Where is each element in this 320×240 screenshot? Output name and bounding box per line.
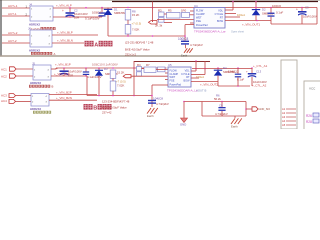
svg-text:R7: R7 (146, 63, 150, 67)
svg-text:AC4: AC4 (1, 99, 7, 103)
earth ground B2 (234, 116, 236, 118)
svg-text:TPS54360DDAR-A_La: TPS54360DDAR-A_La (167, 89, 198, 93)
svg-text:+_VIN_B1N: +_VIN_B1N (54, 72, 70, 76)
svg-text:ACT+2: ACT+2 (8, 31, 18, 35)
node VFB (127, 20, 129, 25)
svg-text:A5: A5 (282, 123, 286, 127)
capacitor C2B electrolytic (63, 68, 65, 70)
riser from dark rail x152 (152, 2, 154, 23)
PowerPad wire to earth (185, 24, 194, 26)
earth ground B (147, 108, 158, 114)
svg-text:100|C8: 100|C8 (178, 37, 188, 41)
port arrow left B (123, 75, 131, 78)
svg-text:PowerPad: PowerPad (196, 24, 208, 27)
bottom rail B (87, 95, 152, 97)
svg-text:ACT-2: ACT-2 (8, 39, 17, 43)
svg-text:BOW: BOW (217, 20, 224, 23)
svg-text:+: + (62, 9, 64, 13)
IC right pin wires (225, 9, 233, 11)
svg-text:ACT+1: ACT+1 (8, 4, 18, 8)
wire AC3 to J7 (16, 95, 32, 97)
svg-text:BOW: BOW (184, 80, 191, 83)
rail B (51, 68, 56, 70)
bottom loop wire (271, 23, 317, 25)
svg-text:A1: A1 (282, 107, 286, 111)
wire AC4 to J7 (16, 100, 32, 102)
svg-text:R5: R5 (168, 8, 172, 12)
svg-text:+_VIN_B2N: +_VIN_B2N (56, 96, 72, 100)
svg-text:0.1uF/100V: 0.1uF/100V (87, 75, 102, 79)
wire J6 out pin1 (52, 34, 98, 36)
capacitor C12 (237, 68, 239, 74)
svg-text:0.1uF/100V: 0.1uF/100V (85, 16, 100, 20)
svg-text:A4: A4 (282, 119, 286, 123)
svg-text:R4: R4 (137, 63, 141, 67)
svg-text:U4: U4 (194, 4, 198, 8)
PowerPad wire to earth B (152, 84, 168, 86)
svg-text:7.02K: 7.02K (117, 83, 124, 87)
svg-text:100|C4: 100|C4 (92, 11, 101, 15)
wire input AIN-1 (2, 15, 30, 17)
svg-text:R26: R26 (306, 114, 312, 118)
svg-text:Open sheet: Open sheet (231, 31, 244, 34)
svg-text:+: + (56, 67, 58, 71)
svg-text:+_VIN_BLN: +_VIN_BLN (57, 39, 73, 43)
svg-text:+_VIN_OUT1: +_VIN_OUT1 (242, 23, 260, 27)
capacitor C8B (148, 100, 156, 101)
big white panel (304, 81, 320, 130)
TVS diode D1 (107, 8, 109, 10)
window A left border (0, 0, 2, 56)
dark rail B (134, 61, 210, 63)
wire J4 out pin2 (return) (53, 16, 102, 18)
TVS diode D4 (217, 68, 219, 70)
svg-text:56.2k: 56.2k (214, 97, 221, 101)
svg-text:Earth: Earth (147, 114, 154, 118)
svg-text:123-234-BDF)43*7.48: 123-234-BDF)43*7.48 (102, 100, 130, 104)
svg-text:U5: U5 (168, 63, 172, 67)
svg-text:HDR2X2: HDR2X2 (30, 81, 41, 85)
svg-text:A: A (54, 52, 56, 56)
svg-text:B: B (52, 85, 54, 89)
svg-text:100|C6: 100|C6 (272, 4, 281, 8)
svg-text:+7 (0.5): +7 (0.5) (132, 22, 142, 26)
connector J4 (30, 6, 53, 21)
narrow white panel (281, 60, 297, 129)
svg-text:A2: A2 (282, 111, 286, 115)
junction dots rail B (63, 67, 65, 69)
svg-text:+_VIN_ALP: +_VIN_ALP (56, 4, 72, 8)
svg-text:FSE: FSE (196, 20, 201, 23)
TVS diode D3 (98, 68, 100, 70)
input wires J6 (2, 34, 30, 36)
svg-text:HDR2X2: HDR2X2 (30, 107, 41, 111)
svg-text:+: + (296, 8, 298, 12)
main rail A (112, 7, 317, 9)
svg-text:Earth: Earth (181, 54, 188, 58)
GND_ISO port (246, 108, 252, 110)
title B (84, 104, 112, 112)
svg-text:C13: C13 (256, 69, 262, 73)
svg-text:10uF/100V: 10uF/100V (253, 80, 267, 84)
bottom rail A (108, 35, 185, 37)
IC U4 (194, 8, 225, 29)
capacitor C3 electrolytic (301, 8, 303, 12)
sheet top rail (dark) (112, 1, 318, 3)
svg-text:15.2K: 15.2K (117, 70, 124, 74)
svg-text:R3: R3 (158, 8, 162, 12)
J7 comment text (CJK) (33, 111, 51, 114)
svg-text:0.1uF: 0.1uF (276, 11, 283, 15)
svg-text:+_C?L_A1: +_C?L_A1 (253, 64, 268, 68)
return wire B (51, 75, 87, 77)
svg-text:VCC: VCC (309, 87, 316, 91)
cluster wires (164, 13, 167, 15)
svg-text:4.7nF|2kV: 4.7nF|2kV (190, 43, 203, 47)
svg-text:10R: 10R (74, 16, 79, 20)
svg-text:7.02K: 7.02K (132, 27, 139, 31)
svg-text:C3: C3 (305, 6, 309, 10)
capacitor C8 (181, 41, 189, 42)
svg-text:237+42: 237+42 (102, 110, 112, 114)
svg-text:1R0: 1R0 (181, 8, 187, 12)
wire J6 out pin2 (52, 42, 84, 44)
resistor R8 (125, 10, 131, 20)
svg-text:PowerPad: PowerPad (170, 83, 182, 86)
svg-text:AC2: AC2 (1, 74, 7, 78)
resistor R12 (125, 25, 131, 34)
junction dots rail A (69, 7, 71, 9)
wire J4 out pin1 to rail (53, 7, 112, 9)
svg-text:GND: GND (180, 123, 186, 127)
node on dark rail (232, 1, 234, 3)
svg-text:J6: J6 (28, 27, 31, 31)
small cluster parts B (137, 67, 142, 71)
wire input AIN+1 (2, 7, 30, 9)
svg-text:104|C8: 104|C8 (153, 96, 163, 100)
svg-text:(23-231-BDF)43 * 2.48: (23-231-BDF)43 * 2.48 (125, 41, 154, 45)
svg-text:A: A (94, 42, 98, 48)
svg-text:100uA: 100uA (237, 13, 245, 17)
svg-text:TPS54360DDAR-A_Lar: TPS54360DDAR-A_Lar (194, 29, 226, 33)
svg-text:2K.3k: 2K.3k (155, 24, 163, 28)
svg-text:R28: R28 (306, 120, 312, 124)
svg-text:GND_ISO: GND_ISO (259, 107, 271, 111)
window A top border (0, 0, 320, 2)
svg-text:+_VIN_OUT2: +_VIN_OUT2 (200, 82, 218, 86)
svg-text:15.2K: 15.2K (132, 13, 139, 17)
TVS diode D2 (255, 2, 257, 10)
IC B right pin wires (191, 70, 196, 72)
capacitor C6 (270, 8, 272, 13)
svg-text:VOUT B: VOUT B (196, 88, 206, 92)
GND stem and symbol (183, 102, 185, 119)
svg-text:A3: A3 (282, 115, 286, 119)
svg-text:SMBJ58A: SMBJ58A (114, 11, 127, 15)
svg-text:100|C10 0.1uF/100V: 100|C10 0.1uF/100V (92, 63, 118, 67)
J4 comment text (CJK) (31, 27, 56, 31)
svg-text:+_VIN_B1P: +_VIN_B1P (55, 62, 71, 66)
earth ground A (184, 48, 193, 53)
svg-text:232+1+2: 232+1+2 (125, 52, 136, 56)
window A bottom separator (0, 55, 320, 57)
svg-text:J5: J5 (32, 61, 35, 65)
port arrow left (149, 21, 158, 24)
IC U5 (168, 67, 191, 87)
svg-text:104|C12: 104|C12 (228, 70, 239, 74)
resistor R12B (110, 81, 116, 91)
svg-text:BXE 4(0.5)uF Value: BXE 4(0.5)uF Value (125, 48, 150, 52)
svg-text:+_VIN_BLP: +_VIN_BLP (57, 31, 73, 35)
svg-text:B: B (93, 106, 97, 112)
svg-text:+: + (246, 70, 248, 74)
pin list rows in panel (286, 109, 296, 125)
title A (85, 41, 113, 49)
svg-text:J4: J4 (29, 2, 32, 6)
svg-text:AC3: AC3 (1, 93, 7, 97)
capacitor C2 electrolytic (69, 8, 71, 12)
resistor R8B (110, 70, 116, 78)
svg-text:C9: C9 (219, 103, 223, 107)
frame wires bottom (184, 101, 246, 103)
svg-text:0.1uF: 0.1uF (237, 77, 244, 81)
wire J7 out pin1 (49, 94, 97, 96)
capacitor C13 electrolytic (251, 68, 253, 73)
connector J7 (31, 94, 49, 107)
svg-text:4.7nF|2kV: 4.7nF|2kV (156, 102, 169, 106)
svg-text:D3: D3 (104, 67, 108, 71)
connector J6 (30, 30, 52, 47)
capacitor C4 (101, 8, 103, 13)
wire J7 out pin2 (49, 99, 97, 101)
right block bottom wire B (218, 85, 250, 87)
svg-text:AC1: AC1 (1, 67, 7, 71)
svg-text:4.7nF|2kV: 4.7nF|2kV (215, 112, 228, 116)
capacitor C10 (85, 68, 87, 71)
svg-text:FSE: FSE (170, 80, 175, 83)
svg-text:BXE 4(0.5)uF Value: BXE 4(0.5)uF Value (102, 106, 127, 110)
capacitor C9 (221, 102, 223, 108)
connector J5 (33, 65, 51, 80)
svg-text:10uF/100V: 10uF/100V (303, 14, 317, 18)
svg-text:+_C?L_A2: +_C?L_A2 (252, 83, 267, 87)
small cluster parts (159, 12, 165, 17)
svg-text:ACT-1: ACT-1 (8, 12, 17, 16)
svg-text:+_VIN_B2P: +_VIN_B2P (56, 90, 72, 94)
svg-text:Earth: Earth (231, 125, 238, 129)
